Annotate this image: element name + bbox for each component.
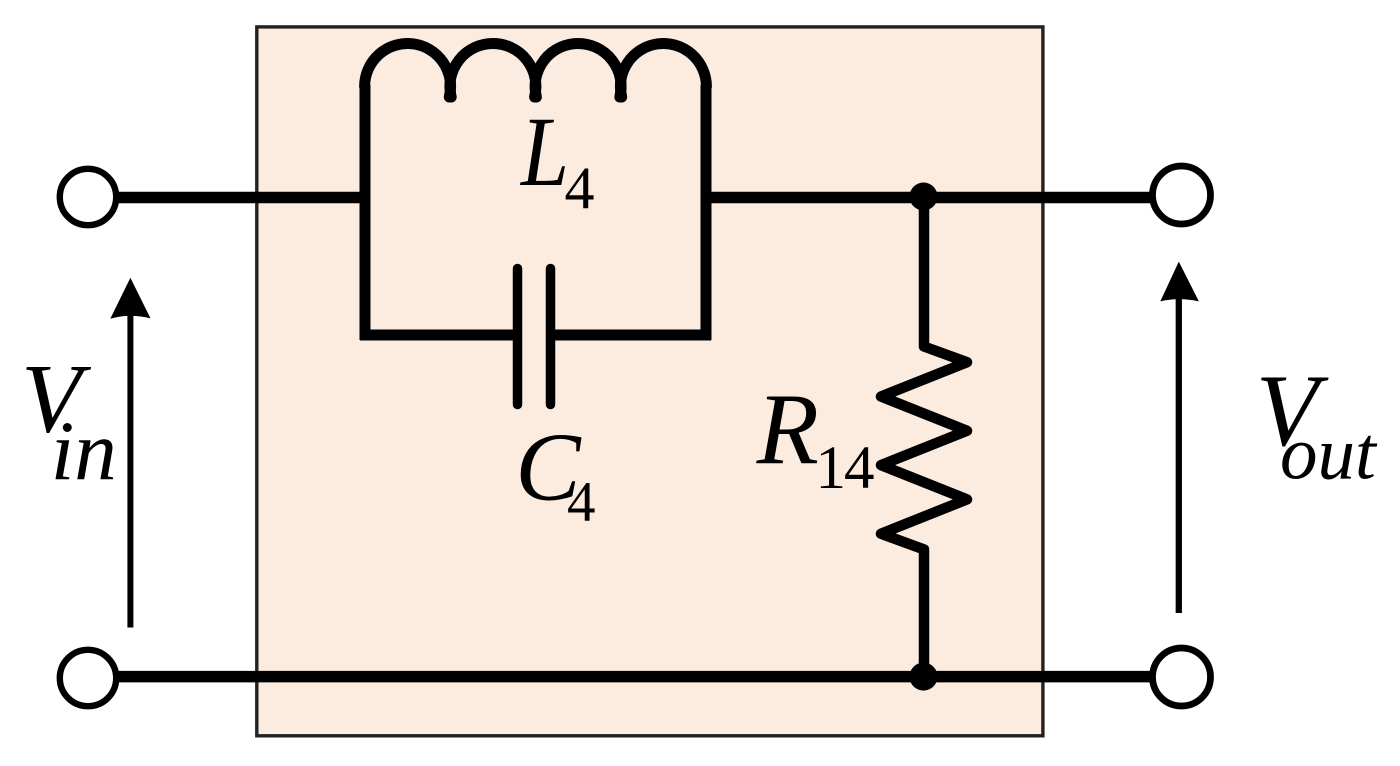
svg-text:14: 14 xyxy=(816,435,875,502)
svg-text:in: in xyxy=(51,404,117,498)
svg-text:out: out xyxy=(1280,413,1378,496)
svg-text:R: R xyxy=(756,373,819,486)
svg-text:4: 4 xyxy=(567,471,596,534)
svg-text:L: L xyxy=(519,96,569,207)
svg-text:4: 4 xyxy=(565,155,595,221)
